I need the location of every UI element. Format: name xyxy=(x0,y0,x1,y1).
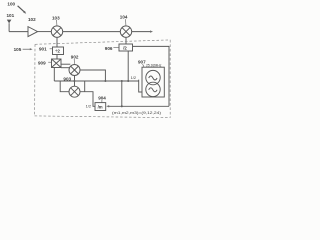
svg-text:/m: /m xyxy=(98,104,103,109)
svg-text:907: 907 xyxy=(138,60,146,65)
svg-text:903: 903 xyxy=(63,77,71,82)
svg-text:101: 101 xyxy=(7,13,15,18)
svg-text:103: 103 xyxy=(52,16,60,21)
svg-text:104: 104 xyxy=(120,15,128,20)
svg-text:909: 909 xyxy=(38,61,46,66)
svg-text:105: 105 xyxy=(14,47,22,52)
svg-text:100: 100 xyxy=(7,2,15,7)
svg-text:(m1,m2,m3)=(9,12,24): (m1,m2,m3)=(9,12,24) xyxy=(112,110,162,115)
svg-text:902: 902 xyxy=(71,54,79,59)
svg-text:904: 904 xyxy=(98,95,106,100)
svg-text:25.92MHz: 25.92MHz xyxy=(146,63,162,67)
svg-text:906: 906 xyxy=(105,46,113,51)
svg-text:1/2: 1/2 xyxy=(131,75,136,80)
svg-text:1/2: 1/2 xyxy=(86,104,91,109)
svg-text:/2: /2 xyxy=(123,45,127,50)
svg-text:102: 102 xyxy=(28,17,36,22)
svg-text:÷2: ÷2 xyxy=(55,48,60,53)
svg-text:901: 901 xyxy=(39,46,47,51)
